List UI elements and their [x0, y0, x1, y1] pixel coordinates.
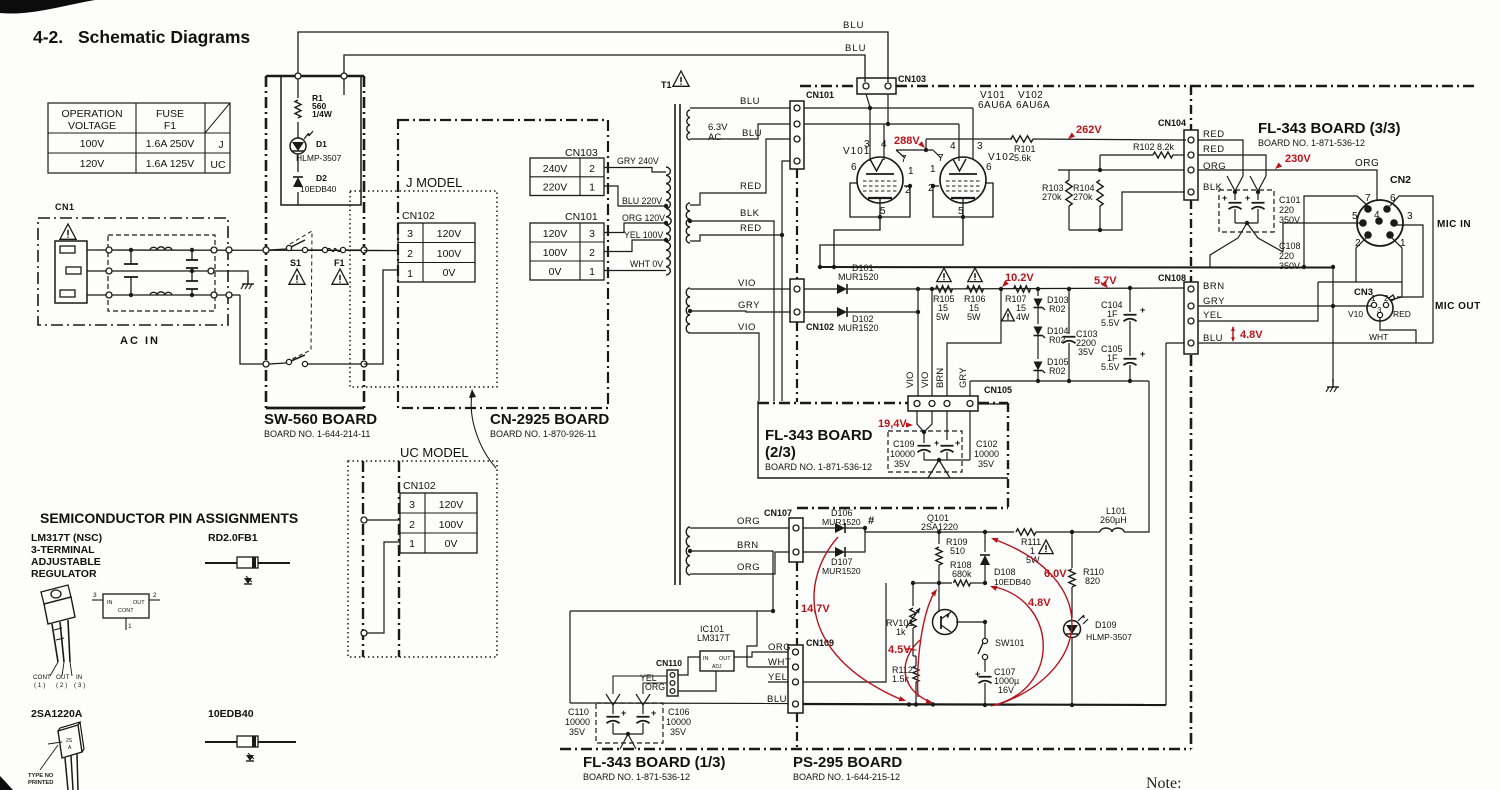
connector CN108 [1158, 273, 1198, 354]
svg-text:J MODEL: J MODEL [406, 175, 462, 190]
connector CN102 table [398, 223, 475, 282]
tube designation labels [978, 90, 1050, 111]
wire GRY pin down [969, 411, 971, 460]
svg-text:WHT: WHT [768, 657, 791, 668]
svg-text:OPERATION: OPERATION [61, 108, 122, 120]
zener D103 [1034, 287, 1069, 317]
wire lower to CN102 pin1 [364, 270, 398, 364]
svg-text:WHT 0V: WHT 0V [630, 259, 663, 269]
wire RED upper [690, 139, 790, 205]
svg-text:240V: 240V [543, 163, 568, 175]
svg-text:CN103: CN103 [898, 74, 926, 84]
svg-text:120V: 120V [80, 158, 105, 170]
wire ORG bottom CN107 [690, 552, 789, 574]
svg-text:MIC IN: MIC IN [1437, 219, 1471, 230]
svg-text:270k: 270k [1073, 192, 1093, 202]
capacitor C109 [918, 432, 940, 460]
resistor R104 [1073, 180, 1103, 230]
annotation 5.7V [1094, 275, 1117, 290]
diode D101 [804, 284, 918, 294]
svg-text:FL-343 BOARD: FL-343 BOARD [765, 427, 873, 444]
connector CN2 [1352, 174, 1413, 249]
UC MODEL dotted box [348, 461, 497, 657]
svg-text:6AU6A: 6AU6A [1016, 100, 1050, 111]
svg-text:5.5V: 5.5V [1101, 362, 1120, 372]
CN110 wire labels [640, 673, 665, 692]
transistor Q101 symbol [933, 583, 988, 635]
scan artifact top-left corner [0, 0, 95, 14]
board dash-dot below CN104 [1190, 200, 1192, 282]
red arc right to D108 node [989, 584, 1043, 706]
svg-text:CN110: CN110 [656, 658, 682, 668]
svg-text:TYPE NO: TYPE NO [28, 773, 54, 779]
svg-text:4.5V–: 4.5V– [888, 644, 917, 656]
svg-text:HLMP-3507: HLMP-3507 [1086, 632, 1132, 642]
wire CN2 pin7 [1304, 196, 1368, 267]
wire stub right terminal [343, 79, 345, 95]
svg-text:AC: AC [708, 132, 721, 143]
wire CN103 left pin down [866, 94, 870, 107]
capacitor C110 [606, 694, 626, 734]
ground symbol right [1326, 379, 1339, 392]
svg-text:VIO: VIO [738, 322, 756, 333]
svg-text:3: 3 [864, 139, 870, 150]
capacitor C107 [975, 667, 1019, 706]
svg-text:REGULATOR: REGULATOR [31, 568, 97, 580]
red arc from rail to zero left [814, 537, 907, 703]
svg-text:3: 3 [977, 141, 983, 152]
Q101 label [921, 513, 958, 532]
red arc up to R108 node [918, 587, 940, 697]
svg-text:C110: C110 [568, 707, 589, 717]
svg-text:2: 2 [153, 592, 157, 599]
diode D2 [293, 173, 337, 194]
svg-text:5: 5 [880, 206, 886, 217]
line filter dashed box [108, 235, 215, 311]
svg-text:0V: 0V [443, 267, 456, 279]
svg-text:R02: R02 [1049, 366, 1066, 376]
svg-text:ORG: ORG [737, 562, 760, 573]
wire GRY 240V [604, 156, 666, 172]
svg-text:ORG 120V: ORG 120V [622, 213, 665, 223]
wire VIO bottom [690, 322, 759, 401]
type no printed note [28, 773, 54, 786]
svg-text:510: 510 [950, 546, 965, 556]
svg-text:C108: C108 [1279, 241, 1301, 251]
RD2.0FB1 axial diode drawing [205, 557, 290, 584]
ground symbol AC [241, 276, 254, 289]
IC101 regulator block [700, 651, 734, 671]
svg-text:AC IN: AC IN [120, 335, 160, 347]
svg-text:3: 3 [407, 228, 413, 240]
wire ORG top CN107 [690, 516, 789, 528]
connector CN3 [1354, 287, 1395, 321]
wire ORG 230V to CN2 [1198, 158, 1379, 200]
svg-text:WHT: WHT [1369, 332, 1388, 342]
svg-text:VOLTAGE: VOLTAGE [68, 120, 116, 132]
C101 value label [1279, 195, 1301, 225]
svg-text:RED: RED [1203, 129, 1225, 140]
svg-text:2: 2 [1384, 294, 1389, 303]
terminal circles AC rows [106, 247, 232, 298]
svg-text:3: 3 [1377, 306, 1382, 315]
capacitor C108 [1245, 193, 1265, 223]
svg-text:10EDB40: 10EDB40 [994, 577, 1031, 587]
svg-text:+: + [955, 438, 960, 448]
svg-text:FL-343 BOARD (3/3): FL-343 BOARD (3/3) [1258, 120, 1401, 137]
svg-text:CONT: CONT [118, 608, 134, 614]
wire BLU left of CN108 [1166, 342, 1184, 344]
wire YEL 100V [604, 230, 666, 252]
C109 value label [890, 439, 915, 469]
wire GRY mid [690, 300, 790, 312]
connector CN107 [764, 508, 803, 562]
CN109 wire labels [767, 642, 791, 705]
wire BLU riser 1 [295, 32, 888, 82]
svg-text:OUT: OUT [719, 656, 731, 662]
wire CN2 pin6 to WHT loop [1390, 196, 1433, 343]
svg-text:5W: 5W [936, 312, 950, 322]
wire V102 cathode down [820, 217, 963, 267]
wire CN2 pin5 [1283, 223, 1360, 252]
leader arrow to J model box [469, 389, 496, 468]
svg-text:100V: 100V [439, 519, 464, 531]
svg-text:BOARD NO. 1-871-536-12: BOARD NO. 1-871-536-12 [1258, 138, 1365, 148]
terminal SW board right lower [361, 361, 367, 367]
CN108 wire labels [1203, 281, 1225, 344]
FL-343 (3/3) board name [1258, 120, 1401, 148]
svg-text:2: 2 [409, 519, 415, 531]
wire GRY to CN3 [1198, 305, 1371, 307]
FL-343 (2/3) board name [765, 427, 873, 472]
svg-text:BRN: BRN [1203, 281, 1225, 292]
svg-text:CN102: CN102 [403, 480, 436, 492]
svg-text:SEMICONDUCTOR PIN ASSIGNMENTS: SEMICONDUCTOR PIN ASSIGNMENTS [40, 510, 298, 526]
svg-text:100V: 100V [80, 138, 105, 150]
wire R1 branch vertical [297, 79, 299, 205]
choke coil top [150, 247, 172, 250]
svg-text:J: J [218, 139, 223, 151]
annotation 230V [1273, 153, 1311, 171]
rotated wire labels CN105 [905, 367, 969, 388]
wire BLU rail to CN109 [570, 702, 788, 705]
switch S1 lower pole [263, 355, 364, 367]
svg-text:BOARD NO. 1-644-215-12: BOARD NO. 1-644-215-12 [793, 772, 900, 782]
svg-text:2: 2 [589, 163, 595, 175]
LED D109 [1064, 615, 1133, 706]
svg-text:MUR1520: MUR1520 [838, 272, 879, 282]
C108 value label [1279, 241, 1301, 271]
wire BRN drop [947, 289, 1001, 396]
svg-text:OUT: OUT [133, 600, 145, 606]
wire RED return riser [780, 233, 784, 401]
svg-text:CN101: CN101 [806, 90, 834, 100]
svg-text:CN102: CN102 [806, 322, 834, 332]
UC terminal upper [361, 517, 400, 523]
switch SW101 [978, 622, 1025, 672]
svg-text:ORG: ORG [768, 642, 791, 653]
svg-text:10000: 10000 [666, 717, 691, 727]
svg-text:5: 5 [958, 206, 964, 217]
S1 label and warning [289, 258, 305, 284]
svg-text:( 1 ): ( 1 ) [34, 682, 45, 689]
svg-text:1: 1 [589, 266, 595, 278]
svg-text:C106: C106 [668, 707, 690, 717]
svg-text:SW-560 BOARD: SW-560 BOARD [264, 411, 377, 428]
board dash-dot above CN104 [1190, 86, 1192, 130]
svg-text:+: + [1140, 349, 1145, 359]
wire YEL right of CN109 [803, 583, 886, 682]
wire BLK down to heater rail [773, 250, 775, 401]
wire WHT drop [1380, 318, 1416, 343]
capacitor block C110 C106 dashed box [596, 703, 663, 743]
tube V102 6AU6A [928, 108, 1015, 219]
wire R103 R104 bottoms to BLK [1058, 170, 1184, 232]
svg-text:IN: IN [107, 600, 113, 606]
svg-text:BRN: BRN [737, 540, 759, 551]
resistor R106 [964, 268, 986, 322]
svg-text:5.6k: 5.6k [1014, 153, 1032, 163]
svg-text:1: 1 [589, 182, 595, 194]
svg-text:YEL 100V: YEL 100V [624, 230, 663, 240]
wire L101 up to zero rail [1124, 381, 1149, 532]
svg-text:5.5V: 5.5V [1101, 318, 1120, 328]
svg-text:LM317T (NSC): LM317T (NSC) [31, 532, 102, 544]
svg-text:Schematic Diagrams: Schematic Diagrams [78, 27, 250, 47]
switch S1 upper pole [263, 240, 322, 253]
svg-text:CN3: CN3 [1354, 287, 1373, 298]
AC inlet connector [55, 241, 87, 303]
annotation 4.8V right [1231, 326, 1263, 342]
svg-text:6: 6 [986, 162, 992, 173]
svg-text:MUR1520: MUR1520 [838, 323, 879, 333]
svg-text:4: 4 [881, 139, 887, 150]
svg-text:F1: F1 [334, 258, 345, 268]
red arc RV101 to zero [905, 640, 934, 706]
svg-text:( 3 ): ( 3 ) [74, 682, 85, 689]
LM317T heading [31, 532, 102, 580]
svg-text:#: # [868, 515, 874, 527]
resistor R107 [999, 286, 1031, 322]
svg-text:35V: 35V [569, 727, 585, 737]
resistor R102 [1100, 142, 1184, 170]
svg-text:3: 3 [1407, 211, 1413, 222]
svg-text:BLU: BLU [1203, 333, 1223, 344]
transformer primary winding [664, 167, 671, 275]
svg-text:1: 1 [407, 268, 413, 280]
svg-text:BLU: BLU [740, 96, 760, 107]
wire earth stub [232, 271, 248, 276]
svg-text:GRY: GRY [958, 367, 969, 388]
svg-text:UC MODEL: UC MODEL [400, 445, 469, 460]
tube V101 6AU6A [843, 108, 914, 219]
svg-text:C102: C102 [976, 439, 998, 449]
capacitor block C109 dashed box [888, 431, 962, 472]
J MODEL dotted box [350, 191, 497, 387]
svg-text:CN104: CN104 [1158, 118, 1186, 128]
svg-text:CN108: CN108 [1158, 273, 1186, 283]
svg-text:120V: 120V [543, 228, 568, 240]
PS zero rail [803, 702, 1166, 707]
diode D108 [980, 532, 1031, 587]
svg-text:RD2.0FB1: RD2.0FB1 [208, 532, 258, 544]
svg-text:35V: 35V [894, 459, 910, 469]
svg-text:V102: V102 [988, 152, 1015, 163]
svg-text:PS-295 BOARD: PS-295 BOARD [793, 754, 902, 771]
svg-text:+: + [621, 708, 626, 718]
ground rail from plate circuit [818, 265, 1335, 269]
svg-text:6.0V: 6.0V [1044, 568, 1067, 580]
svg-text:4-2.: 4-2. [33, 27, 63, 47]
SW-560 board outline [266, 76, 364, 408]
resistor R111 [1016, 529, 1100, 565]
wire WHT right of CN109 [803, 660, 870, 667]
potentiometer RV101 [886, 583, 920, 656]
svg-text:2: 2 [928, 183, 934, 194]
svg-text:BLK: BLK [1203, 182, 1223, 193]
PS rail 14V [865, 528, 1074, 534]
capacitor C102 [941, 438, 961, 460]
svg-text:820: 820 [1085, 576, 1100, 586]
svg-text:S1: S1 [290, 258, 301, 268]
wire plate rail 262V [926, 138, 1012, 140]
svg-text:1: 1 [409, 538, 415, 550]
svg-text:350V: 350V [1279, 261, 1300, 271]
svg-text:+: + [1140, 305, 1145, 315]
wire VIO vertical 2 [931, 289, 933, 396]
diode D107 [803, 526, 867, 576]
resistor R110 [1069, 532, 1104, 618]
FL-343 (2/3) board outline [758, 401, 1008, 508]
svg-text:+: + [651, 708, 656, 718]
wire CN110 pin to C110 [613, 676, 667, 694]
wire CN2 pin3 to CN3 pin2 [1397, 225, 1423, 297]
wire WHT 0V [604, 259, 666, 271]
svg-text:220V: 220V [543, 182, 568, 194]
wire ORG 120V [604, 213, 666, 233]
svg-text:R02: R02 [1049, 304, 1066, 314]
wire plate node 288V [896, 139, 941, 158]
connector CN103 table [530, 158, 604, 196]
resistor R101 [1011, 136, 1186, 163]
LM317T package drawing [41, 585, 75, 676]
svg-text:CN-2925 BOARD: CN-2925 BOARD [490, 411, 609, 428]
svg-text:270k: 270k [1042, 192, 1062, 202]
IC101 label [697, 624, 731, 643]
svg-text:CN102: CN102 [402, 210, 435, 222]
wire BLU 220V [604, 186, 666, 206]
svg-text:35V: 35V [1078, 347, 1094, 357]
LED D1 [290, 131, 342, 163]
svg-text:F1: F1 [164, 120, 176, 132]
wire 6.3V BLU top [690, 96, 790, 108]
svg-text:V10: V10 [1348, 309, 1363, 319]
svg-text:2: 2 [407, 248, 413, 260]
svg-text:1.6A 125V: 1.6A 125V [146, 158, 194, 170]
wire RED lower [690, 161, 790, 241]
svg-text:T1: T1 [661, 80, 672, 90]
annotation 288V [894, 135, 927, 150]
svg-text:D108: D108 [994, 567, 1016, 577]
svg-text:IN: IN [76, 674, 83, 681]
svg-text:10000: 10000 [890, 449, 915, 459]
svg-text:YEL: YEL [768, 672, 787, 683]
svg-text:IN: IN [703, 656, 709, 662]
svg-text:6: 6 [851, 162, 857, 173]
svg-text:VIO: VIO [920, 372, 931, 388]
svg-text:5: 5 [1352, 211, 1358, 222]
svg-text:YEL: YEL [1203, 310, 1222, 321]
svg-text:CN105: CN105 [984, 385, 1012, 395]
svg-text:7: 7 [1365, 193, 1371, 204]
svg-text:220: 220 [1279, 251, 1294, 261]
svg-text:+: + [934, 438, 939, 448]
svg-text:R102 8.2k: R102 8.2k [1133, 142, 1175, 152]
wire heater top rail [804, 106, 973, 110]
wire CN105 pins down funnel [917, 411, 932, 434]
diode D102 [804, 307, 918, 317]
svg-text:10EDB40: 10EDB40 [300, 184, 337, 194]
svg-text:100V: 100V [543, 247, 568, 259]
svg-text:BRN: BRN [935, 368, 946, 388]
annotation 10.2V [1000, 272, 1034, 289]
wire CN110 adj [678, 671, 716, 691]
svg-text:BLK: BLK [740, 208, 760, 219]
resistor R109 [936, 532, 968, 583]
scan artifact bottom-left corner [0, 776, 13, 790]
svg-text:RED: RED [740, 223, 762, 234]
C110 value label [565, 707, 590, 737]
svg-text:120V: 120V [437, 228, 462, 240]
wire IC101 out to ORG [734, 652, 788, 657]
wire WHT long [747, 666, 788, 668]
svg-text:4.8V: 4.8V [1240, 329, 1263, 341]
FL-343 (1/3) board name [583, 754, 726, 782]
D102 label [838, 314, 879, 333]
svg-text:100V: 100V [437, 248, 462, 260]
svg-text:CN1: CN1 [55, 202, 75, 212]
S1 linkage dashed [290, 231, 312, 359]
C109 bottom node [924, 458, 970, 478]
connector CN103 [857, 74, 926, 94]
svg-text:C109: C109 [893, 439, 915, 449]
svg-text:RED: RED [1203, 144, 1225, 155]
wire YEL riser [1198, 282, 1318, 321]
svg-text:RED: RED [740, 181, 762, 192]
svg-text:MIC OUT: MIC OUT [1435, 301, 1481, 312]
AC IN board outline [38, 218, 228, 325]
svg-text:3: 3 [589, 228, 595, 240]
6.3V AC label [708, 122, 728, 143]
svg-text:1.6A 250V: 1.6A 250V [146, 138, 194, 150]
svg-text:BOARD NO. 1-870-926-11: BOARD NO. 1-870-926-11 [490, 429, 596, 439]
transformer secondary LT winding [686, 527, 692, 575]
svg-text:2: 2 [905, 185, 911, 196]
svg-text:CONT: CONT [33, 674, 51, 681]
svg-text:GRY: GRY [738, 300, 760, 311]
UC terminal lower [361, 542, 400, 636]
diode D106 [803, 508, 865, 533]
svg-text:262V: 262V [1076, 124, 1102, 136]
wire BLU riser 2 [341, 55, 865, 82]
svg-text:2S: 2S [66, 738, 73, 744]
CN-2925 board name [490, 411, 609, 439]
svg-text:C101: C101 [1279, 195, 1301, 205]
svg-text:MUR1520: MUR1520 [822, 517, 861, 527]
svg-text:SW101: SW101 [995, 638, 1025, 648]
svg-text:35V: 35V [670, 727, 686, 737]
fuse F1 [322, 247, 364, 284]
